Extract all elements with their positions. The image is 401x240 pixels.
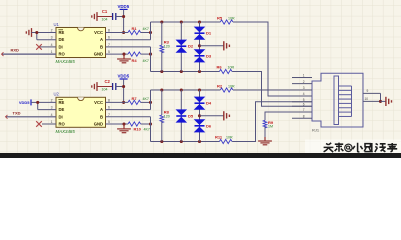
wire TVS D1/D3 column bbox=[199, 22, 201, 72]
svg-text:R6: R6 bbox=[217, 65, 223, 70]
svg-text:B: B bbox=[100, 114, 103, 119]
svg-text:U2: U2 bbox=[54, 92, 60, 97]
junction bbox=[149, 31, 152, 34]
svg-text:DE: DE bbox=[59, 107, 65, 112]
ground (shield) bbox=[386, 97, 392, 106]
capacitor C2 bbox=[102, 79, 116, 92]
svg-text:3: 3 bbox=[51, 36, 53, 40]
pin B stub U1 bbox=[106, 46, 151, 48]
wire R7 to A2 vertical bbox=[141, 101, 151, 103]
ground (U2 GND pin) bbox=[117, 124, 131, 133]
svg-text:R10: R10 bbox=[134, 126, 142, 131]
wire B2 pin down to rail bbox=[150, 117, 152, 142]
svg-text:RO: RO bbox=[59, 52, 66, 57]
wire A-pin up to A rail bbox=[150, 22, 152, 40]
svg-text:VCC: VCC bbox=[94, 30, 103, 35]
wire to shield ground bbox=[381, 100, 386, 102]
node A rail junctions bbox=[160, 20, 201, 23]
svg-text:VCC: VCC bbox=[94, 100, 103, 105]
watermark 头条@小魁说事 bbox=[324, 143, 398, 153]
svg-text:5: 5 bbox=[108, 50, 110, 54]
svg-text:D3: D3 bbox=[206, 53, 212, 58]
connector RJ1 body bbox=[312, 73, 363, 127]
ground (TVS mid, top) bbox=[224, 41, 230, 50]
svg-text:DE: DE bbox=[59, 37, 65, 42]
svg-text:120: 120 bbox=[164, 44, 170, 48]
svg-text:DI: DI bbox=[59, 44, 63, 49]
pin numbers U1 left bbox=[51, 29, 53, 55]
junction bbox=[122, 85, 125, 88]
wire RXD to RO bbox=[2, 53, 56, 55]
resistor R6 series B bbox=[217, 65, 235, 74]
svg-text:A: A bbox=[100, 107, 103, 112]
svg-text:R2: R2 bbox=[217, 84, 223, 89]
svg-text:U1: U1 bbox=[54, 22, 60, 27]
junction TVS midpoint (bottom) bbox=[198, 114, 201, 117]
pin GND stub U2 bbox=[106, 123, 129, 125]
wire TVS D2 column bbox=[180, 22, 182, 72]
TVS D2 bbox=[176, 40, 188, 53]
svg-text:10R: 10R bbox=[228, 17, 235, 21]
wire B rail right + down to RJ45 pin6 bbox=[232, 72, 312, 107]
svg-text:104: 104 bbox=[102, 88, 108, 92]
svg-text:D2: D2 bbox=[188, 44, 194, 49]
svg-text:1: 1 bbox=[51, 120, 53, 124]
svg-text:4: 4 bbox=[51, 43, 53, 47]
ground (U1 GND pin) bbox=[117, 54, 131, 63]
pin numbers U2 right bbox=[108, 98, 110, 124]
pin A stub U2 bbox=[106, 109, 151, 111]
resistor R8 termination bbox=[160, 90, 170, 142]
wire B-pin down to B rail bbox=[150, 47, 152, 72]
wire A2 rail to RJ45 pin3 bbox=[233, 89, 312, 91]
watermark backdrop bbox=[305, 140, 401, 154]
svg-text:R5: R5 bbox=[217, 16, 223, 21]
svg-text:3: 3 bbox=[51, 106, 53, 110]
svg-text:RE: RE bbox=[59, 100, 65, 105]
svg-text:7: 7 bbox=[108, 43, 110, 47]
IC U2 MAX3485 body bbox=[56, 97, 106, 127]
resistor R2 series A2 bbox=[217, 84, 235, 93]
resistor R1 bbox=[128, 26, 149, 35]
svg-text:10R: 10R bbox=[228, 85, 235, 89]
svg-text:GND: GND bbox=[94, 122, 103, 127]
wire A rail (top) bbox=[151, 21, 221, 23]
wire C2 to VDD5 node bbox=[116, 86, 124, 88]
ground (TVS mid, bottom) bbox=[224, 111, 230, 120]
svg-text:MAX3485: MAX3485 bbox=[56, 129, 76, 134]
wire C1 to VDD5 node bbox=[116, 16, 124, 18]
junction bbox=[122, 15, 125, 18]
RJ45 pin 10 stub bbox=[363, 100, 381, 102]
wire pin9 down to pin10 bbox=[380, 93, 382, 101]
svg-text:MAX3485: MAX3485 bbox=[56, 59, 76, 64]
wire TXD to DI bbox=[6, 116, 56, 118]
power port VDD5 (U2 RE/DE) bbox=[19, 99, 38, 105]
wire R10 to B2 vertical bbox=[141, 123, 151, 125]
svg-text:RO: RO bbox=[59, 122, 66, 127]
svg-text:4K7: 4K7 bbox=[143, 97, 149, 101]
svg-text:B: B bbox=[100, 44, 103, 49]
svg-text:VDD5: VDD5 bbox=[117, 73, 129, 78]
junction bbox=[122, 122, 125, 125]
IC U1 MAX3485 body bbox=[56, 28, 106, 58]
resistor R4 bbox=[128, 52, 149, 63]
junction bbox=[122, 31, 125, 34]
junction TVS midpoint bbox=[198, 44, 201, 47]
svg-text:R11: R11 bbox=[215, 135, 223, 140]
svg-text:DI: DI bbox=[59, 114, 63, 119]
TVS D3 bbox=[194, 49, 206, 62]
svg-text:10R: 10R bbox=[228, 66, 235, 70]
svg-text:D6: D6 bbox=[206, 123, 212, 128]
svg-text:2: 2 bbox=[51, 29, 53, 33]
wire B2 rail bbox=[151, 141, 220, 143]
svg-text:2: 2 bbox=[51, 98, 53, 102]
svg-text:R7: R7 bbox=[132, 96, 138, 101]
wire R9 to ground bbox=[264, 127, 266, 141]
wire A rail right + down to RJ45 pin4 bbox=[233, 22, 312, 96]
power port VDD5 (bottom) bbox=[117, 73, 129, 102]
svg-text:RJ1: RJ1 bbox=[312, 128, 320, 133]
resistor R5 series A bbox=[217, 16, 235, 25]
no-connect X on DI bbox=[36, 44, 42, 50]
svg-text:3: 3 bbox=[303, 86, 305, 90]
svg-text:VDD5: VDD5 bbox=[117, 4, 129, 9]
svg-text:7: 7 bbox=[108, 113, 110, 117]
svg-text:TXD: TXD bbox=[13, 110, 21, 115]
ground (C2 left) bbox=[92, 82, 97, 91]
power port VDD5 (top) bbox=[117, 4, 129, 33]
svg-text:A: A bbox=[100, 37, 103, 42]
no-connect X on RO bbox=[36, 121, 42, 127]
svg-text:4K7: 4K7 bbox=[144, 127, 150, 131]
resistor R9 bbox=[263, 120, 274, 129]
svg-text:D4: D4 bbox=[206, 101, 212, 106]
wire TVS D4/D6 column bbox=[199, 90, 201, 142]
wire to ground (TVS mid bottom) bbox=[200, 115, 224, 117]
svg-text:GND: GND bbox=[94, 52, 103, 57]
junction bbox=[35, 31, 38, 34]
svg-text:10R: 10R bbox=[226, 136, 233, 140]
svg-text:C2: C2 bbox=[105, 79, 111, 84]
svg-text:104: 104 bbox=[102, 18, 108, 22]
svg-text:1M: 1M bbox=[268, 125, 273, 129]
wire gnd to RE/DE junction bbox=[32, 33, 57, 40]
junction bbox=[122, 101, 125, 104]
svg-text:D5: D5 bbox=[188, 114, 194, 119]
pin numbers U2 left bbox=[51, 98, 53, 124]
svg-text:4K7: 4K7 bbox=[143, 27, 149, 31]
svg-text:4K7: 4K7 bbox=[143, 59, 149, 63]
svg-text:VDD5: VDD5 bbox=[19, 100, 30, 105]
junction bbox=[379, 100, 382, 103]
wire to ground (TVS mid) bbox=[200, 45, 224, 47]
pin A stub U1 bbox=[106, 39, 151, 41]
junction bbox=[122, 53, 125, 56]
TVS D6 bbox=[194, 119, 206, 132]
pin numbers U1 right bbox=[108, 29, 110, 55]
svg-text:6: 6 bbox=[108, 106, 110, 110]
junction bbox=[36, 101, 39, 104]
pin RO stub U2 bbox=[42, 123, 56, 125]
svg-text:120: 120 bbox=[164, 114, 170, 118]
resistor R11 series B2 bbox=[215, 135, 233, 144]
port chevron RXD bbox=[2, 52, 4, 56]
svg-text:C1: C1 bbox=[102, 9, 108, 14]
port chevron TXD bbox=[6, 115, 8, 119]
wire B rail (bottom) bbox=[151, 71, 220, 73]
svg-text:1: 1 bbox=[303, 74, 305, 78]
wire RJ45 pin7 to R9 bbox=[265, 112, 312, 120]
wire R4 to B-net vertical bbox=[141, 53, 151, 55]
pin VCC stub U1 bbox=[106, 32, 129, 34]
svg-text:8: 8 bbox=[108, 98, 110, 102]
TVS D4 bbox=[194, 97, 206, 110]
junction bbox=[149, 122, 152, 125]
svg-text:6: 6 bbox=[303, 103, 305, 107]
watermark @ bbox=[345, 144, 352, 151]
svg-text:R4: R4 bbox=[132, 58, 138, 63]
RJ45 pin numbers 1-8 bbox=[303, 74, 305, 119]
wire gnd to C1 bbox=[97, 16, 112, 18]
capacitor C1 bbox=[102, 9, 116, 22]
bottom black bar bbox=[0, 153, 401, 158]
pin GND stub U1 bbox=[106, 53, 129, 55]
svg-text:7: 7 bbox=[303, 108, 305, 112]
svg-text:8: 8 bbox=[108, 29, 110, 33]
svg-text:8: 8 bbox=[303, 115, 305, 119]
wire B2 rail up to RJ45 pin5 bbox=[232, 102, 312, 142]
pin DI stub U1 bbox=[40, 46, 56, 48]
ground (C1 left) bbox=[92, 12, 97, 21]
pin VCC stub U2 bbox=[106, 101, 129, 103]
svg-text:10: 10 bbox=[365, 97, 369, 101]
wire TVS D5 column bbox=[180, 90, 182, 142]
ground (RE/DE of U1) bbox=[26, 28, 31, 37]
svg-text:2: 2 bbox=[303, 80, 305, 84]
wire gnd to C2 bbox=[97, 86, 112, 88]
svg-text:RXD: RXD bbox=[11, 48, 20, 53]
svg-text:5: 5 bbox=[108, 120, 110, 124]
wire R1 to A-net vertical bbox=[141, 32, 151, 34]
RJ45 pin 9 stub bbox=[363, 92, 381, 94]
junction bbox=[149, 101, 152, 104]
svg-text:5: 5 bbox=[303, 98, 305, 102]
pin B stub U2 bbox=[106, 116, 151, 118]
wire RE/DE junction U2 bbox=[38, 102, 56, 109]
resistor R3 termination bbox=[160, 22, 170, 72]
svg-text:RE: RE bbox=[59, 30, 65, 35]
node A2 rail junctions bbox=[160, 88, 201, 91]
node B2 rail junctions bbox=[160, 140, 201, 143]
RJ45 pin stubs 1-8 bbox=[292, 78, 312, 119]
svg-text:R1: R1 bbox=[132, 26, 138, 31]
svg-text:6: 6 bbox=[108, 36, 110, 40]
resistor R7 bbox=[128, 96, 149, 105]
svg-text:4: 4 bbox=[303, 92, 305, 96]
TVS D1 bbox=[194, 27, 206, 40]
resistor R10 bbox=[128, 122, 150, 131]
node B rail junctions bbox=[160, 70, 201, 73]
svg-text:9: 9 bbox=[367, 89, 369, 93]
wire A2 pin up to rail bbox=[150, 90, 152, 110]
junction bbox=[149, 53, 152, 56]
wire A2 rail bbox=[151, 89, 221, 91]
ground (R9) bbox=[258, 137, 272, 145]
TVS D5 bbox=[176, 109, 188, 122]
svg-text:D1: D1 bbox=[206, 31, 212, 36]
